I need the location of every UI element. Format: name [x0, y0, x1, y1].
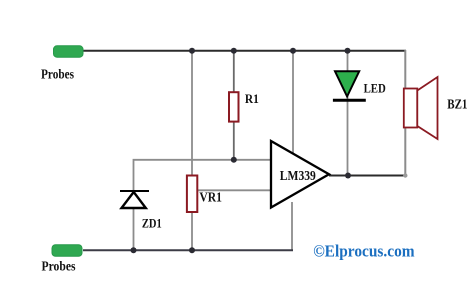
wire ZD1 to non-inverting input of LM339: [133, 160, 271, 250]
junction node bottom rail at VR1: [189, 247, 195, 253]
svg-text:Probes: Probes: [42, 259, 76, 274]
probe terminal bottom (green): [52, 245, 82, 257]
svg-text:VR1: VR1: [199, 190, 222, 205]
junction node on top rail at LED branch: [345, 48, 351, 54]
probe terminal top (green): [54, 46, 84, 57]
svg-text:©Elprocus.com: ©Elprocus.com: [313, 241, 415, 260]
svg-text:ZD1: ZD1: [142, 216, 162, 231]
wire LED branch vertical: [347, 50, 349, 176]
svg-text:R1: R1: [245, 91, 259, 106]
zener diode ZD1 triangle: [122, 192, 146, 208]
svg-text:LED: LED: [364, 82, 386, 96]
LED cathode bar: [333, 99, 366, 102]
wire LM339 power pin vertical: [292, 50, 294, 154]
junction node on top rail at LM339 power branch: [290, 48, 296, 54]
junction node on top rail at VR1 branch: [189, 48, 195, 54]
junction node bottom rail at ZD1: [131, 247, 137, 253]
wire right vertical to buzzer: [404, 50, 406, 176]
op-amp comparator LM339: [271, 141, 329, 208]
junction node on top rail at R1 branch: [231, 48, 237, 54]
zener diode ZD1 cathode bar: [120, 190, 149, 192]
buzzer BZ1 horn: [417, 77, 437, 139]
wire R1 branch vertical: [233, 50, 235, 160]
bottom rail wire: [83, 249, 293, 251]
junction node R1 bottom to input wire: [231, 157, 237, 163]
svg-text:BZ1: BZ1: [447, 97, 467, 112]
junction node output to buzzer corner: [403, 173, 407, 177]
svg-text:Probes: Probes: [41, 67, 74, 82]
output wire: [329, 175, 406, 177]
svg-text:LM339: LM339: [280, 168, 316, 183]
LED diode triangle (green): [335, 71, 359, 96]
top supply rail wire: [83, 50, 406, 52]
junction node LED cathode to output wire: [345, 173, 351, 179]
wire VR1 branch vertical: [191, 50, 193, 250]
buzzer BZ1 body: [404, 89, 418, 128]
resistor R1: [229, 92, 239, 121]
potentiometer VR1: [187, 176, 197, 213]
wire LM339 ground pin vertical: [291, 202, 293, 250]
wire VR1 wiper to inverting input of LM339: [197, 189, 271, 191]
